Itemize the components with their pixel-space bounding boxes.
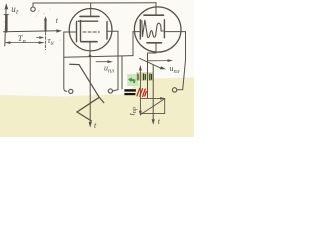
axis u_g vertical bbox=[5, 5, 6, 46]
tube1 right plate bbox=[106, 22, 108, 40]
tube1 second bar bbox=[78, 20, 98, 22]
top wire bbox=[33, 2, 156, 4]
tube2 cathode lead bbox=[148, 43, 157, 98]
capacitor black bar top bbox=[124, 89, 135, 91]
time axis t horizontal bbox=[4, 31, 59, 32]
bottom bus bbox=[64, 56, 133, 58]
tube1 left wire bbox=[64, 31, 76, 33]
pulse 2 dashed extension bbox=[45, 33, 47, 50]
right box right side and bottom bbox=[141, 99, 165, 114]
tube2 anode lead bbox=[155, 3, 157, 15]
tube2 left wire bbox=[133, 32, 139, 56]
left waveform: sawtooth bbox=[70, 64, 104, 121]
tube2 right wire bbox=[165, 32, 186, 90]
tube2 screen waveform bbox=[142, 20, 163, 38]
u_pl arrow right bbox=[148, 60, 170, 62]
scan speckles bbox=[3, 9, 60, 41]
tube2 left plate bbox=[139, 20, 141, 39]
wire to capacitor bbox=[121, 56, 123, 89]
right box diagonal bbox=[141, 99, 165, 115]
right waveform ramp arrow bbox=[140, 58, 163, 68]
terminal top-left bbox=[32, 3, 34, 7]
tube1 cathode bar bbox=[81, 41, 97, 43]
tube 2 envelope bbox=[134, 7, 181, 52]
tube1 anode lead bbox=[90, 3, 92, 16]
tube1 grid dashed bbox=[83, 31, 100, 33]
tube2 cathode bar bbox=[147, 42, 162, 44]
junction dot bbox=[89, 55, 92, 58]
green arrow annotation bbox=[128, 77, 136, 83]
tube1 left plates bbox=[76, 22, 78, 42]
tube1 cathode lead bbox=[89, 42, 91, 56]
tube2 right plate bbox=[163, 20, 165, 38]
left waveform t-axis bbox=[89, 56, 91, 124]
tau_i arrow bbox=[37, 37, 42, 39]
tube 1 envelope bbox=[69, 9, 112, 51]
page background (cream) bbox=[0, 0, 194, 137]
green wash annotation bbox=[127, 74, 138, 86]
tube1 right wire bbox=[108, 31, 119, 91]
right amplitude double arrow bbox=[139, 68, 141, 113]
pulse 2 arrow bbox=[45, 19, 47, 31]
T_п dimension line bbox=[6, 42, 44, 44]
pulse 1 bbox=[5, 15, 7, 31]
chip dark marks bbox=[138, 74, 152, 81]
red hatching bbox=[137, 88, 146, 96]
u_pl arrow left bbox=[96, 61, 109, 63]
figure background (white scan area) bbox=[0, 0, 194, 97]
tube1 anode bar bbox=[80, 15, 99, 17]
left vertical wire down to terminal bbox=[64, 32, 67, 91]
tube2 anode bar bbox=[144, 14, 164, 16]
capacitor black bar bottom bbox=[124, 93, 135, 95]
tan chip bbox=[136, 72, 153, 81]
right waveform: sawtooth box top bbox=[141, 97, 161, 99]
right waveform t-axis bbox=[152, 65, 154, 122]
